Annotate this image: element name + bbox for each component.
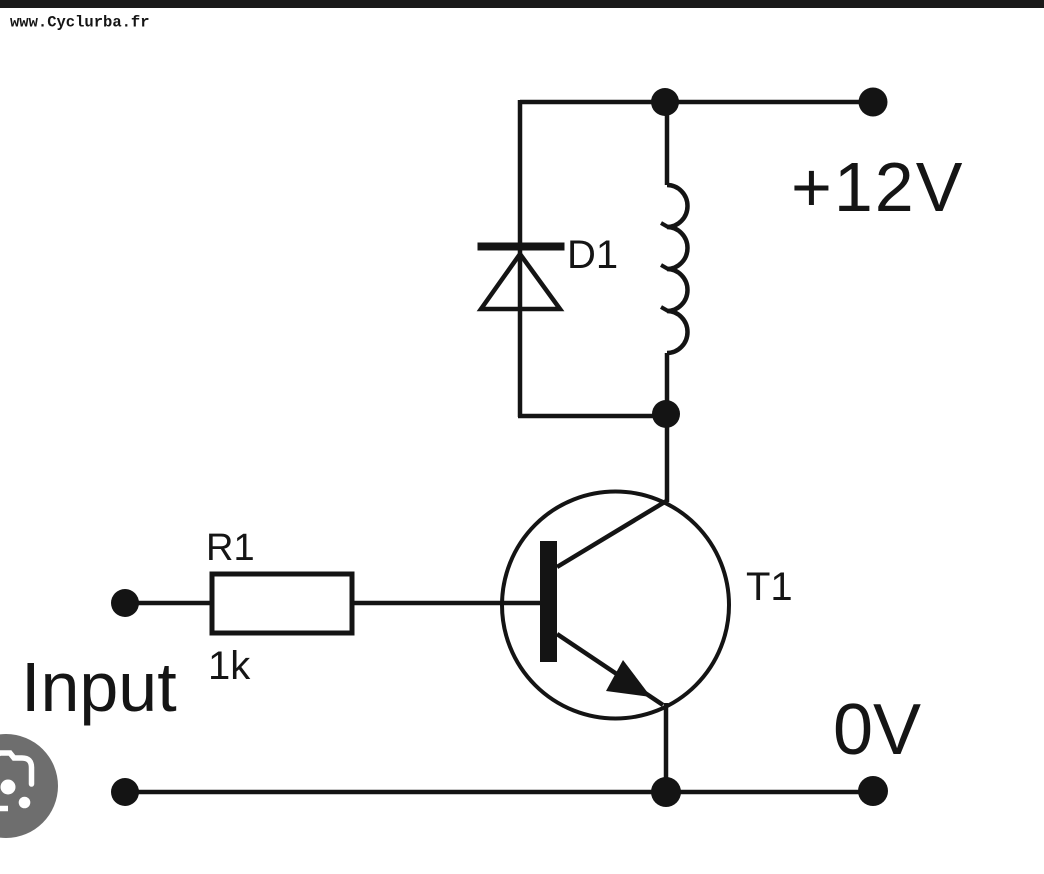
wire coil branch vertical top [665,102,670,185]
transistor T1 body circle [502,492,729,719]
wire D1 branch vertical drop [518,100,523,417]
svg-text:+12V: +12V [791,148,964,226]
coil cusp hook 2 [661,265,668,269]
top black browser bar [0,0,1044,8]
transistor T1 emitter diagonal [557,634,663,705]
transistor T1 emitter arrowhead [606,660,651,697]
wire bottom 0V rail [125,790,873,795]
terminal node bottom left [111,778,139,806]
wire top rail from D1 branch to +12V terminal [520,100,872,105]
google lens lens dot [1,780,16,795]
wire coil branch vertical bottom to junction [665,353,670,414]
resistor R1 box [212,574,352,633]
wire collector vertical from junction to transistor [665,414,670,502]
coil cusp hook 3 [661,307,668,311]
wire emitter vertical to 0V rail [664,703,669,793]
transistor T1 base bar [540,541,557,662]
wire input terminal to resistor [124,601,212,606]
transistor T1 collector diagonal [557,500,668,567]
svg-text:D1: D1 [567,233,618,277]
coil cusp hook 1 [661,223,668,227]
terminal node 0V [858,776,888,806]
svg-text:www.Cyclurba.fr: www.Cyclurba.fr [10,14,150,32]
junction node coil/diode [652,400,680,428]
junction node top rail [651,88,679,116]
svg-text:1k: 1k [208,644,251,688]
terminal node Input [111,589,139,617]
svg-text:0V: 0V [833,690,921,770]
diode D1 anode triangle [481,254,560,309]
google lens camera frame top [0,753,32,784]
inductor L1 coil [667,185,687,353]
wire base from resistor to transistor [354,601,541,606]
google lens small dot [19,797,31,809]
svg-text:Input: Input [21,648,177,726]
google lens camera frame bottom bar [0,806,8,812]
svg-text:T1: T1 [746,565,793,609]
google lens icon grey circle [0,734,58,838]
junction node emitter/0V rail [651,777,681,807]
wire D1 bottom horizontal to coil junction [518,414,666,419]
diode D1 cathode bar [478,243,565,251]
svg-text:R1: R1 [206,527,255,569]
terminal node +12V [859,88,888,117]
